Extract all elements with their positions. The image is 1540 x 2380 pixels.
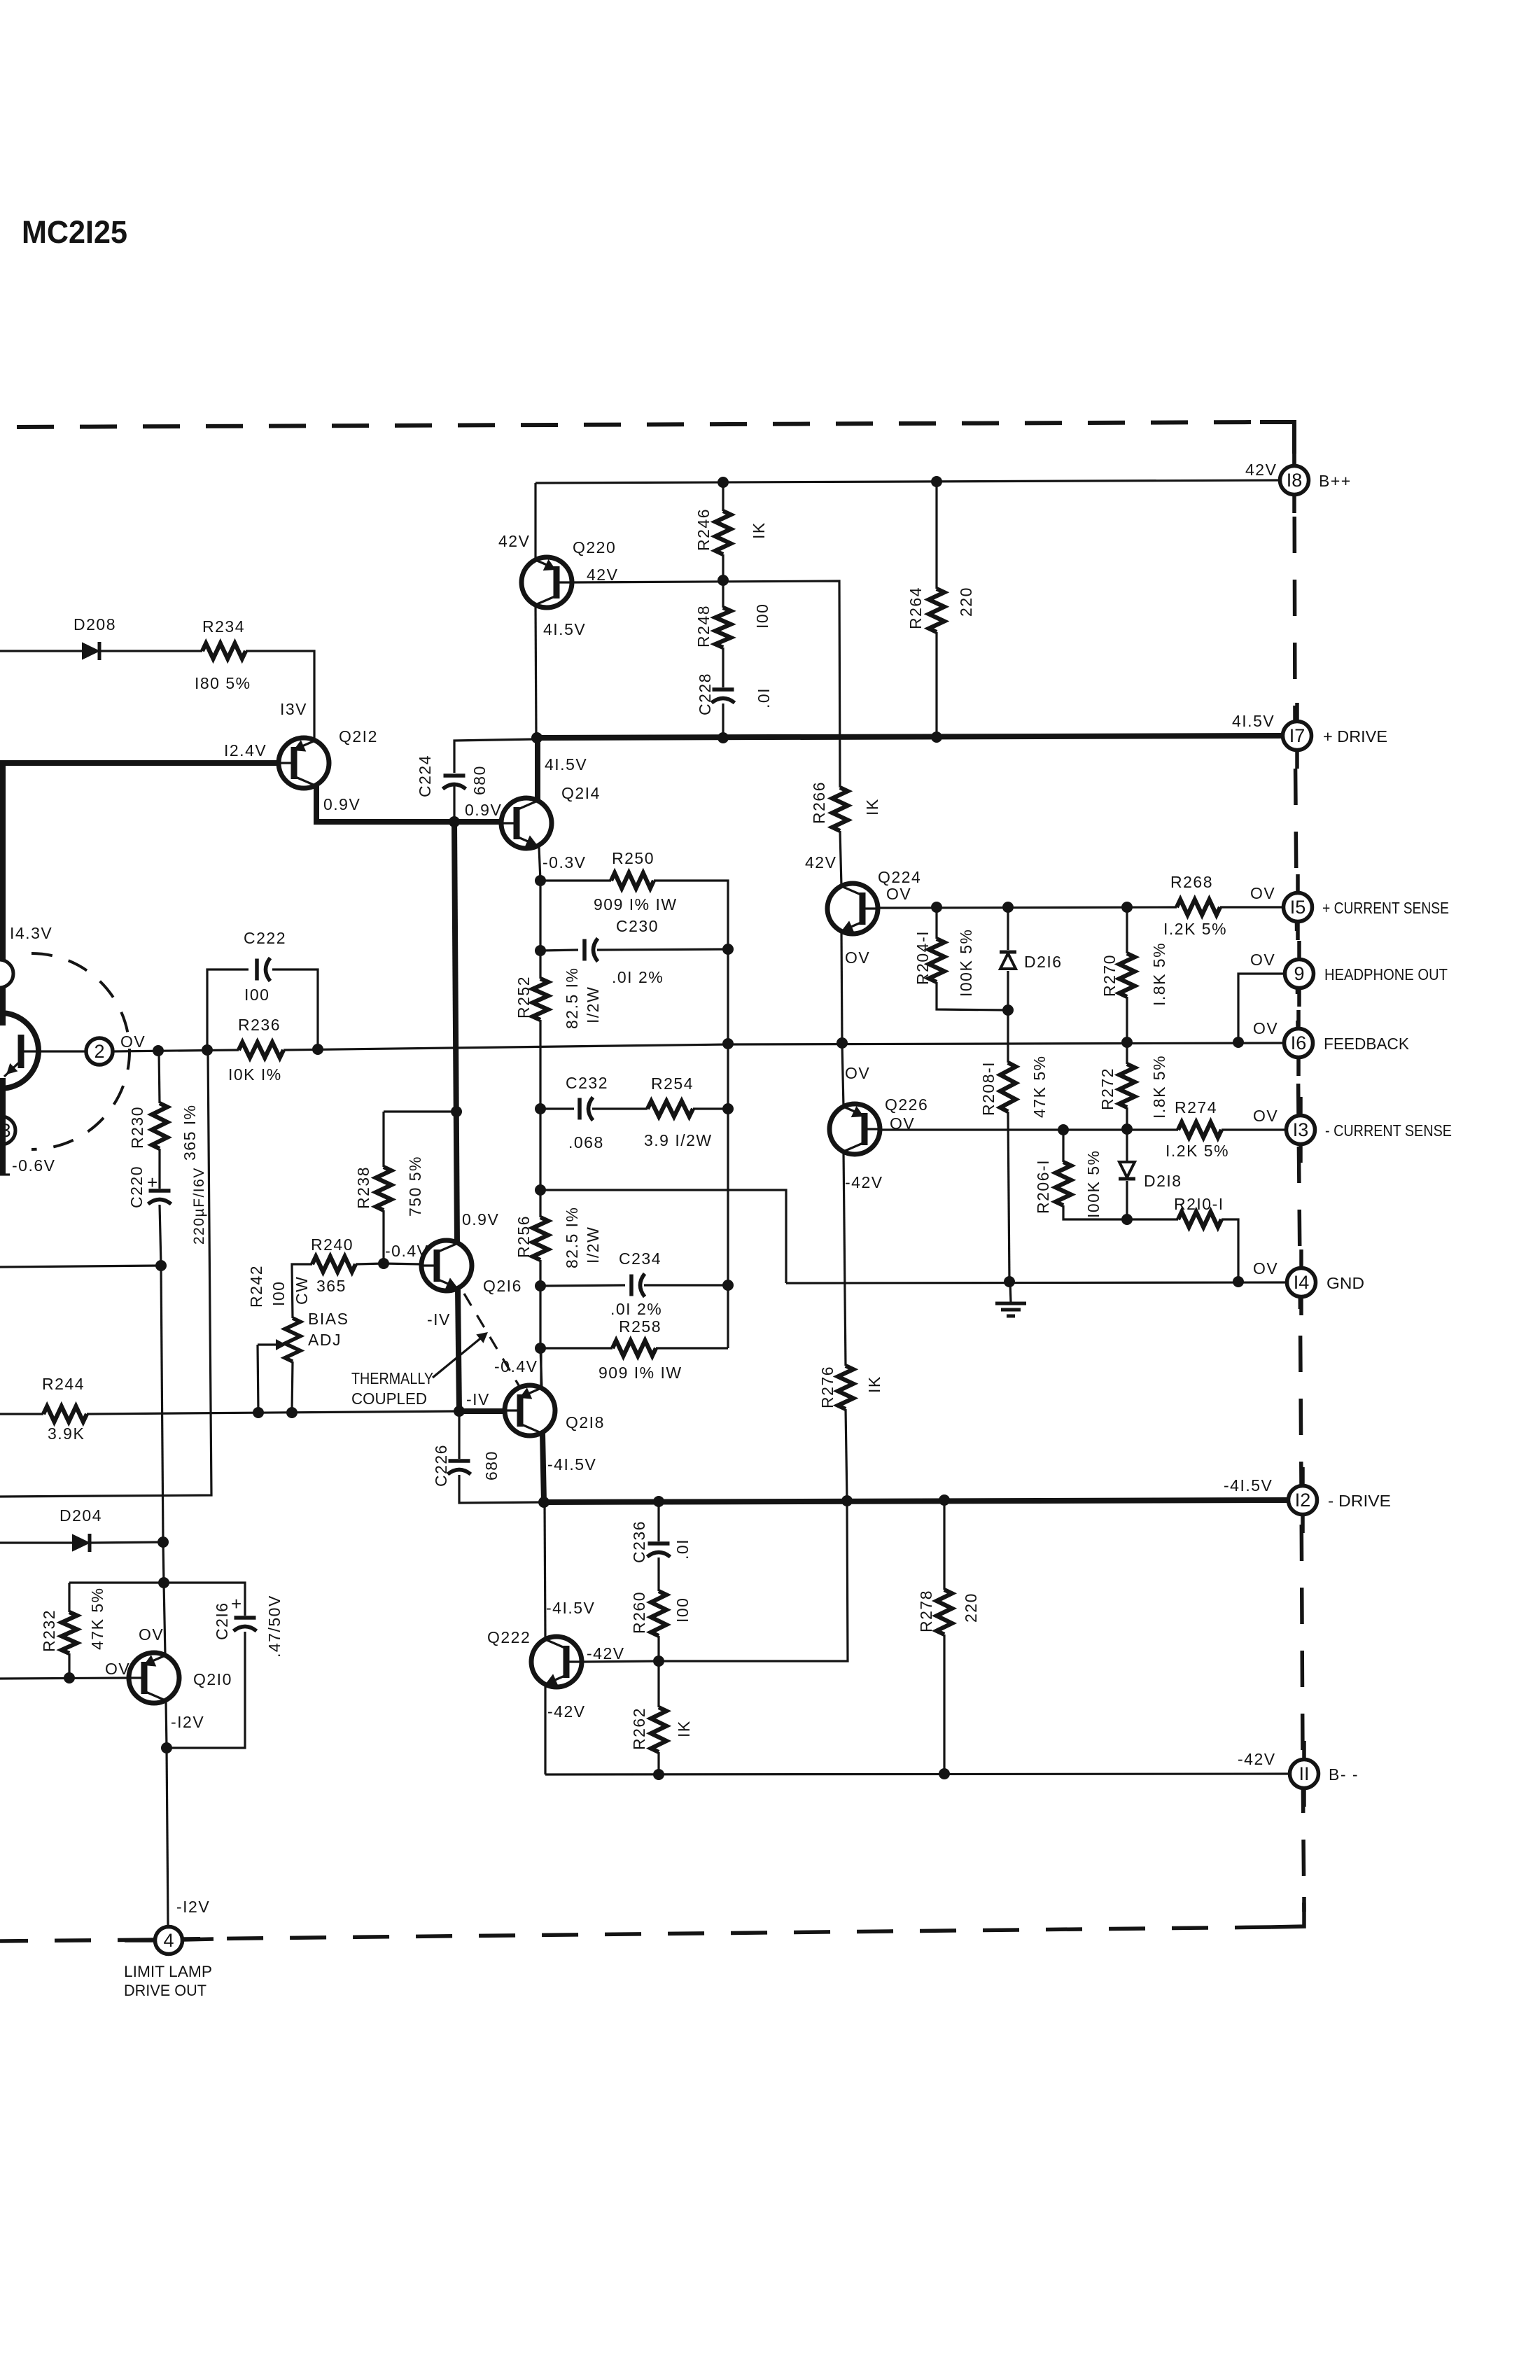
label R236 value [228, 1065, 282, 1084]
wire R232 top lead [68, 1583, 70, 1612]
wire R244 run [87, 1411, 459, 1414]
label R258 [619, 1317, 661, 1336]
label C230 [616, 917, 659, 935]
wire Q214 collector [535, 738, 540, 801]
wire R206-1 bottom [1063, 1205, 1127, 1219]
label C216 [213, 1602, 231, 1640]
wire C226 top [458, 1411, 460, 1459]
label C228 value [755, 687, 773, 708]
svg-text:.0I: .0I [673, 1539, 692, 1560]
label -0.4V R240 [385, 1242, 428, 1260]
wire Q222 base [583, 1661, 659, 1662]
svg-text:4I.5V: 4I.5V [543, 620, 586, 638]
node R206-1 top [1058, 1124, 1069, 1135]
wire 12.4V input [0, 760, 279, 766]
label 0.9V Q212 [323, 795, 360, 813]
border stub terminal 9 [1297, 941, 1301, 1007]
capacitor C232 [580, 1098, 593, 1121]
svg-text:R232: R232 [40, 1609, 58, 1652]
label R244 value [48, 1424, 85, 1443]
node B++ R246 [717, 477, 729, 488]
label 0.9V Q214 [465, 801, 502, 819]
svg-text:GND: GND [1326, 1274, 1364, 1292]
wire Q226 top [842, 1043, 843, 1107]
label R250 [612, 849, 654, 867]
svg-text:I5: I5 [1290, 897, 1306, 918]
svg-text:C222: C222 [244, 929, 286, 947]
wire gnd stub [1010, 1282, 1011, 1302]
wire Q212 emitter thick [316, 785, 501, 822]
border stub terminal 11 [1302, 1741, 1306, 1807]
label R204-1 value [957, 929, 975, 997]
wire D208 to R234 [99, 650, 202, 652]
wire R208-1 bottom [1008, 1112, 1009, 1282]
label 42V B++ [1245, 461, 1277, 479]
label R258 value [598, 1364, 682, 1382]
svg-text:R268: R268 [1170, 873, 1213, 891]
node C222 loop left [202, 1044, 213, 1056]
node C236 top [653, 1496, 664, 1507]
svg-text:-42V: -42V [845, 1173, 883, 1191]
node R208-1 GND [1004, 1276, 1015, 1287]
svg-text:I7: I7 [1289, 725, 1305, 746]
label Q216 [483, 1277, 522, 1295]
node R276 -DRIVE [841, 1495, 853, 1506]
svg-text:MC2I25: MC2I25 [22, 214, 127, 250]
svg-text:R252: R252 [514, 976, 533, 1018]
svg-text:.0I 2%: .0I 2% [612, 968, 664, 986]
wire D218 bottom lead [1126, 1181, 1128, 1219]
svg-text:220µF/I6V: 220µF/I6V [191, 1167, 207, 1245]
label R232 [40, 1609, 58, 1652]
wire pot bottom [292, 1361, 293, 1413]
resistor R230 [152, 1103, 167, 1149]
wire output col low [539, 1286, 541, 1348]
label Q218 [566, 1413, 605, 1431]
svg-text:D204: D204 [59, 1506, 102, 1525]
label R238 value [406, 1156, 424, 1217]
label C236 [630, 1520, 648, 1563]
label R208-1 [979, 1061, 997, 1116]
svg-text:I00: I00 [244, 986, 269, 1004]
pot wiper arrow [258, 1339, 286, 1350]
wire C230 left lead [540, 950, 578, 951]
wire output col mid [539, 1109, 541, 1190]
svg-text:Q2I4: Q2I4 [561, 784, 601, 802]
dashed border top-right corner [1260, 422, 1294, 454]
svg-text:I8: I8 [1287, 470, 1303, 491]
svg-text:Q224: Q224 [878, 868, 921, 886]
transistor Q212 [279, 738, 329, 788]
diode D218 [1119, 1162, 1135, 1179]
svg-text:C232: C232 [566, 1074, 608, 1092]
dashed border bottom-left [0, 1940, 154, 1941]
svg-text:I3: I3 [1293, 1119, 1309, 1140]
svg-text:OV: OV [1253, 1259, 1278, 1277]
diode D204 [73, 1534, 90, 1552]
label R256 value2 [584, 1226, 602, 1263]
wire Q222 emitter [544, 1684, 546, 1774]
border stub terminal 16 [1296, 1010, 1301, 1076]
label D216 [1024, 953, 1063, 971]
resistor R204-1 [929, 939, 944, 982]
node C234 right [722, 1280, 734, 1291]
wire C236 to R260 [657, 1557, 659, 1591]
label CW [293, 1276, 311, 1305]
node C222 loop right [312, 1044, 323, 1055]
svg-text:Q226: Q226 [885, 1095, 928, 1114]
svg-text:C226: C226 [432, 1444, 450, 1487]
label OV terminal2 [120, 1032, 146, 1051]
label C236 value [673, 1539, 692, 1560]
svg-text:OV: OV [1250, 884, 1275, 902]
svg-text:42V: 42V [1245, 461, 1277, 479]
resistor R278 [937, 1590, 952, 1634]
wire C224 top [454, 739, 535, 773]
label 42V Q224 [805, 853, 836, 871]
resistor R256 [533, 1217, 548, 1260]
resistor R234 [202, 643, 246, 659]
svg-text:R274: R274 [1175, 1098, 1217, 1116]
label R278 [917, 1590, 935, 1632]
label Q212 [339, 727, 378, 745]
wire R246 to node [722, 554, 724, 580]
label R248 value [753, 603, 771, 629]
title MC2125 [22, 214, 127, 250]
svg-text:IK: IK [675, 1720, 693, 1737]
wire R240 right [356, 1263, 384, 1264]
svg-text:D208: D208 [73, 615, 116, 633]
label R256 value1 [563, 1207, 581, 1269]
svg-text:-4I.5V: -4I.5V [1224, 1476, 1273, 1494]
svg-text:R242: R242 [247, 1265, 265, 1308]
terminal 2 [86, 1038, 113, 1065]
svg-text:II: II [1298, 1763, 1309, 1784]
wire Q226 base row [880, 1128, 1178, 1130]
svg-text:I00K 5%: I00K 5% [957, 929, 975, 997]
transistor Q216 [421, 1240, 472, 1291]
svg-text:I.2K 5%: I.2K 5% [1163, 920, 1227, 938]
resistor R208-1 [1000, 1063, 1016, 1112]
capacitor C222 [257, 958, 270, 981]
wire gnd branch run [540, 1190, 786, 1283]
capacitor C234 [631, 1274, 645, 1297]
label -42V Q222 base [587, 1644, 625, 1662]
svg-text:OV: OV [1250, 951, 1275, 969]
label -41.5V Q218 [547, 1455, 596, 1473]
label C232 [566, 1074, 608, 1092]
svg-text:I00K 5%: I00K 5% [1084, 1150, 1102, 1218]
label BIAS ADJ [308, 1310, 349, 1349]
label R230 value [181, 1104, 199, 1161]
svg-text:365 I%: 365 I% [181, 1104, 199, 1161]
wire +DRIVE rail [536, 736, 1282, 738]
svg-text:R236: R236 [238, 1016, 281, 1034]
svg-text:-0.3V: -0.3V [542, 853, 586, 871]
svg-text:IK: IK [865, 1375, 883, 1393]
label C234 [619, 1249, 661, 1268]
label 14.3V [10, 924, 52, 942]
wire C232 lead [540, 1107, 574, 1109]
svg-text:C224: C224 [416, 755, 434, 797]
node D216-R208 junction [1002, 1004, 1014, 1016]
wire R270 top lead [1126, 907, 1128, 953]
label -CURRENT SENSE [1325, 1121, 1452, 1140]
svg-text:R254: R254 [651, 1074, 694, 1093]
svg-text:I/2W: I/2W [584, 986, 602, 1023]
diode D216 [1000, 952, 1016, 969]
thermal coupling dashed [464, 1294, 521, 1389]
label R260 [630, 1591, 648, 1634]
wire output col right [727, 949, 729, 1348]
svg-text:C220: C220 [127, 1165, 146, 1208]
label R272 value [1150, 1055, 1168, 1119]
svg-text:B- -: B- - [1329, 1765, 1359, 1784]
wire Q214 base [454, 822, 501, 822]
wire R272 bottom [1126, 1107, 1128, 1129]
wire R238 top run [384, 1110, 456, 1112]
transistor Q218 [505, 1385, 555, 1436]
svg-text:4: 4 [163, 1930, 174, 1951]
resistor R248 [715, 608, 731, 647]
resistor R244 [43, 1406, 87, 1422]
svg-text:-0.6V: -0.6V [12, 1156, 55, 1175]
label C222 [244, 929, 286, 947]
svg-text:OV: OV [1253, 1107, 1278, 1125]
wire R278 bottom [943, 1634, 945, 1774]
label R240 [311, 1235, 353, 1254]
terminal 18 B++ [1280, 466, 1309, 495]
label C222 value [244, 986, 269, 1004]
wire C236 lead [657, 1501, 659, 1541]
label -12V Q210 [171, 1713, 204, 1731]
wire R264 bottom [935, 632, 937, 737]
node +DRIVE main [531, 732, 542, 743]
label R264 [906, 587, 925, 629]
label OV feedback [1253, 1019, 1278, 1037]
dashed border bottom [183, 1927, 1271, 1939]
border stub terminal 17 [1295, 703, 1299, 769]
svg-text:I3V: I3V [280, 700, 307, 718]
node Q220 base chain [717, 575, 729, 586]
svg-text:R234: R234 [202, 617, 245, 636]
label R240 value [316, 1277, 346, 1295]
terminal 15 +CURRENT SENSE [1284, 893, 1312, 922]
svg-text:47K 5%: 47K 5% [1030, 1055, 1049, 1118]
wire thick Q212-Q216 [454, 822, 457, 1243]
label 12.4V [224, 741, 267, 759]
transistor Q210 [129, 1653, 179, 1703]
capacitor C222 loop [207, 969, 318, 1050]
svg-text:-42V: -42V [1238, 1750, 1276, 1768]
capacitor C228 [712, 689, 735, 703]
resistor R240 [312, 1256, 356, 1272]
label C226 [432, 1444, 450, 1487]
svg-text:R256: R256 [514, 1215, 533, 1258]
terminal 9 HEADPHONE OUT [1285, 960, 1314, 988]
svg-text:I4.3V: I4.3V [10, 924, 52, 942]
svg-text:I4: I4 [1294, 1272, 1310, 1293]
svg-text:R264: R264 [906, 587, 925, 629]
wire R204-1 top lead [935, 907, 937, 939]
svg-text:OV: OV [886, 885, 911, 903]
wire D218 top lead [1126, 1129, 1128, 1161]
wire R272 top lead [1126, 1042, 1128, 1064]
node C230 left [535, 945, 546, 956]
wire R252 bottom [539, 1020, 541, 1109]
resistor R232 [62, 1612, 77, 1653]
wire R258 lead [540, 1347, 612, 1349]
capacitor C236 [647, 1543, 671, 1557]
wire R276 bottom [846, 1409, 847, 1501]
svg-text:-IV: -IV [427, 1310, 451, 1329]
svg-text:0.9V: 0.9V [323, 795, 360, 813]
label 0.9V Q216 [462, 1210, 499, 1228]
label R230 [128, 1106, 146, 1149]
wire C220 node down [161, 1266, 163, 1542]
node R230 tap [153, 1045, 164, 1056]
svg-text:D2I6: D2I6 [1024, 953, 1063, 971]
label R274 [1175, 1098, 1217, 1116]
terminal 11 B-- [1290, 1760, 1319, 1788]
wire R210-1 right [1221, 1219, 1238, 1282]
label C224 value [470, 765, 489, 795]
svg-text:C236: C236 [630, 1520, 648, 1563]
border stub terminal 13 [1298, 1097, 1303, 1163]
svg-text:-0.4V: -0.4V [494, 1357, 538, 1375]
wire Q216 base [384, 1263, 421, 1264]
wire D216 top lead [1007, 907, 1009, 950]
label R252 value2 [584, 986, 602, 1023]
svg-text:R266: R266 [810, 781, 828, 824]
svg-text:FEEDBACK: FEEDBACK [1324, 1035, 1410, 1053]
node Q224 feedback [836, 1037, 848, 1049]
wire C228 to rail [722, 703, 724, 738]
svg-text:CW: CW [293, 1276, 311, 1305]
label -0.3V [542, 853, 586, 871]
wire R248 to C228 [722, 647, 724, 687]
svg-text:82.5 I%: 82.5 I% [563, 967, 581, 1030]
svg-text:+: + [147, 1172, 159, 1193]
wire R258 right [656, 1347, 728, 1349]
wire R234 to Q212 [246, 651, 314, 740]
node Q212-C224 junction [449, 816, 460, 827]
svg-text:ADJ: ADJ [308, 1331, 342, 1349]
svg-text:+: + [231, 1593, 243, 1614]
label R246 [694, 508, 713, 551]
label C232 value [568, 1133, 604, 1151]
resistor R238 [376, 1167, 391, 1210]
node R272 -CS [1121, 1123, 1133, 1135]
label R264 value [957, 587, 975, 617]
node D216 top [1002, 902, 1014, 913]
wire feedback left [113, 1050, 239, 1051]
resistor R274 [1178, 1122, 1221, 1137]
wire R206-1 top lead [1062, 1130, 1064, 1162]
node C220 bottom [155, 1260, 167, 1271]
svg-text:+ CURRENT SENSE: + CURRENT SENSE [1322, 899, 1449, 917]
transistor Q220 [521, 557, 572, 608]
node R270 top [1121, 902, 1133, 913]
label C220 [127, 1165, 146, 1208]
wire R238 bottom [382, 1210, 384, 1263]
dashed border top [17, 422, 1260, 427]
wire B++ to R246 [722, 482, 724, 511]
label Q210 [193, 1670, 232, 1688]
transistor Q224 [827, 883, 878, 934]
svg-text:4I.5V: 4I.5V [545, 755, 587, 773]
wire R250 lead left [540, 879, 611, 881]
label R206-1 value [1084, 1150, 1102, 1218]
label +DRIVE [1323, 727, 1387, 745]
svg-text:I00: I00 [753, 603, 771, 629]
resistor R264 [929, 589, 944, 632]
label OV +CS [1250, 884, 1275, 902]
label OV Q226 top [845, 1064, 870, 1082]
svg-text:D2I8: D2I8 [1144, 1172, 1182, 1190]
border stub terminal 15 [1296, 874, 1300, 940]
svg-text:I6: I6 [1291, 1032, 1307, 1053]
label B++ [1319, 472, 1352, 490]
svg-text:909 I% IW: 909 I% IW [594, 895, 678, 913]
label R208-1 value [1030, 1055, 1049, 1118]
label -42V B-- [1238, 1750, 1276, 1768]
wire R230 to C220 [158, 1149, 160, 1189]
resistor R262 [651, 1707, 666, 1752]
svg-text:-4I.5V: -4I.5V [546, 1599, 595, 1617]
node C234 left [535, 1280, 546, 1291]
label -0.4V Q218 [494, 1357, 538, 1375]
svg-text:I2.4V: I2.4V [224, 741, 267, 759]
node D204 junction [157, 1536, 169, 1548]
label OV -CS [1253, 1107, 1278, 1125]
label R242 value [269, 1281, 288, 1306]
border stub terminal 4 [125, 1939, 213, 1940]
svg-text:9: 9 [1294, 963, 1304, 984]
node R278 B-- [939, 1768, 950, 1779]
wire R254 right [693, 1107, 728, 1109]
label R272 [1098, 1067, 1116, 1110]
label -DRIVE [1328, 1492, 1391, 1510]
svg-text:Q2I0: Q2I0 [193, 1670, 232, 1688]
label 42V Q220 left [498, 532, 530, 550]
svg-text:OV: OV [845, 1064, 870, 1082]
svg-text:-I2V: -I2V [171, 1713, 204, 1731]
svg-text:C2I6: C2I6 [213, 1602, 231, 1640]
wire Q224 emitter [841, 931, 842, 1043]
svg-text:-42V: -42V [547, 1702, 586, 1721]
label R266 value [863, 798, 881, 815]
label GND [1326, 1274, 1364, 1292]
svg-text:Q2I8: Q2I8 [566, 1413, 605, 1431]
label R276 [818, 1366, 836, 1408]
label R204-1 [913, 930, 932, 985]
wire Q218 emitter link [540, 1348, 542, 1388]
label R252 [514, 976, 533, 1018]
svg-text:R258: R258 [619, 1317, 661, 1336]
svg-text:R230: R230 [128, 1106, 146, 1149]
diode D208 [83, 642, 99, 660]
wire C224 branch [453, 785, 455, 822]
label R256 [514, 1215, 533, 1258]
node R210-1 GND [1233, 1276, 1244, 1287]
wire feedback to R230 [159, 1051, 160, 1103]
label R246 value [750, 521, 768, 539]
node Q218 base node [454, 1406, 465, 1417]
label -42V Q222 emitter [547, 1702, 586, 1721]
label C216 plus [231, 1593, 243, 1614]
label R234 [202, 617, 245, 636]
